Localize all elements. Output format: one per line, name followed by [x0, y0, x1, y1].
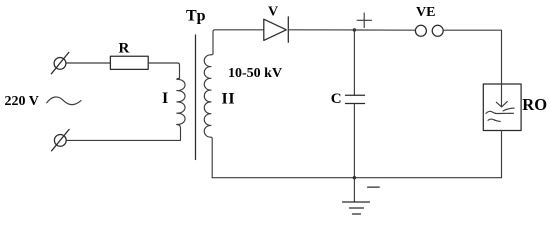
svg-text:VE: VE	[416, 5, 435, 20]
ground	[343, 178, 370, 214]
AC wave symbol	[47, 97, 81, 105]
primary winding I	[177, 78, 185, 124]
svg-text:10-50 kV: 10-50 kV	[228, 66, 282, 81]
svg-text:II: II	[222, 91, 236, 108]
wire node to spark gap	[354, 29, 415, 31]
resistor R	[110, 56, 148, 69]
node capacitor top	[353, 28, 356, 31]
terminal top	[51, 52, 69, 73]
svg-text:220 V: 220 V	[5, 94, 39, 109]
label minus	[368, 186, 380, 188]
capacitor C	[346, 30, 365, 178]
svg-text:C: C	[331, 91, 342, 107]
terminal bottom	[52, 129, 70, 150]
bottom rail wire	[212, 177, 501, 179]
svg-text:R: R	[119, 41, 130, 57]
diode V	[264, 17, 289, 42]
svg-text:V: V	[268, 4, 278, 19]
wire secondary bottom to rail	[211, 137, 212, 178]
wire diode to node	[288, 29, 354, 31]
svg-text:Tp: Tp	[186, 8, 206, 25]
discharge chamber RO	[483, 84, 521, 131]
spark gap VE	[415, 25, 443, 36]
secondary winding II	[204, 55, 211, 137]
svg-text:RO: RO	[522, 95, 547, 114]
node capacitor bottom	[353, 176, 356, 179]
wire top terminal to resistor	[66, 62, 110, 64]
wire RO to rail	[501, 131, 503, 178]
wire primary bottom to terminal	[66, 125, 180, 141]
transformer core	[195, 35, 197, 160]
wire secondary top to diode	[211, 30, 264, 55]
svg-text:I: I	[162, 90, 168, 107]
wire resistor to primary	[148, 63, 179, 78]
wire spark gap to RO	[443, 30, 501, 84]
label +	[357, 13, 371, 27]
